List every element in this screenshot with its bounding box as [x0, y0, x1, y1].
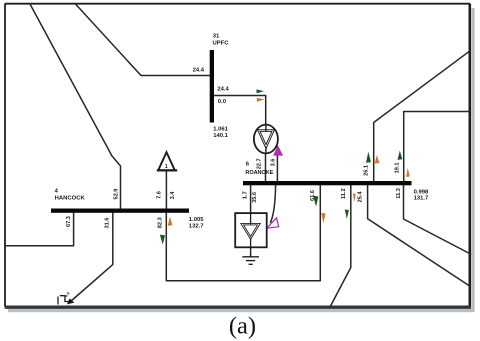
generator G1 [157, 152, 177, 170]
svg-text:24.4: 24.4 [193, 68, 205, 74]
svg-text:3.4: 3.4 [170, 191, 176, 200]
svg-text:0.0: 0.0 [218, 99, 227, 105]
svg-text:82.3: 82.3 [157, 217, 163, 228]
svg-text:1.7: 1.7 [243, 191, 249, 199]
wire line 19.1 from ROANOKE bus to right edge [404, 112, 470, 182]
wire line 67.3 from HANCOCK bus to left edge [5, 213, 74, 246]
orange flow arrow on line 82.3 [168, 217, 173, 226]
svg-text:3.6: 3.6 [271, 159, 277, 167]
svg-text:0.998: 0.998 [414, 189, 429, 195]
svg-text:11.3: 11.3 [396, 188, 402, 199]
orange flow arrow on UPFC-converter wire [257, 98, 265, 102]
svg-text:31.6: 31.6 [105, 218, 111, 229]
stub arrowhead [67, 298, 74, 304]
svg-text:1.005: 1.005 [189, 217, 204, 223]
bus 6 ROANOKE [243, 181, 412, 185]
svg-text:ROANOKE: ROANOKE [245, 170, 273, 176]
orange flow arrow on line 25.4 [353, 194, 356, 203]
wire series injection upper segment [276, 147, 278, 182]
ground [242, 247, 259, 264]
wire line 11.3 from ROANOKE bus to right edge [368, 185, 470, 286]
converter U1 UPFC shunt circle [254, 125, 278, 154]
svg-text:67.3: 67.3 [66, 216, 72, 227]
green flow arrow on line 11.2 [345, 210, 349, 219]
wire converter circle to ROANOKE bus [265, 154, 267, 182]
wire line 82.3/61.6 HANCOCK bus to ROANOKE bus [166, 185, 320, 281]
svg-text:52.9: 52.9 [113, 189, 119, 200]
svg-text:19.1: 19.1 [395, 163, 401, 174]
orange flow arrow on line 19.1 [406, 168, 410, 177]
svg-text:61.6: 61.6 [310, 190, 316, 201]
green flow arrow on UPFC-converter wire [256, 89, 264, 93]
wire line 26.1 from ROANOKE bus to right edge top [374, 51, 470, 181]
svg-text:7.6: 7.6 [157, 191, 163, 199]
svg-text:24.4: 24.4 [217, 86, 229, 92]
svg-text:UPFC: UPFC [213, 40, 230, 46]
green flow arrow on line 82.3 [160, 235, 165, 245]
svg-text:35.6: 35.6 [252, 192, 258, 203]
svg-text:HANCOCK: HANCOCK [55, 195, 86, 201]
wire line 31.6 from HANCOCK bus to bottom stub [71, 213, 113, 302]
svg-text:131.7: 131.7 [414, 195, 429, 201]
svg-text:1.061: 1.061 [213, 126, 228, 132]
svg-text:132.7: 132.7 [189, 223, 204, 229]
load L1 at ROANOKE [235, 213, 267, 247]
green flow arrow on line 61.6 [313, 196, 318, 207]
wire generator G1 to HANCOCK bus [165, 171, 167, 209]
magenta open arrow at load [267, 218, 279, 228]
wire line 24.4 from top edge to UPFC bus [76, 4, 210, 76]
svg-text:31: 31 [213, 34, 220, 40]
svg-text:(a): (a) [229, 313, 256, 340]
svg-text:22.7: 22.7 [257, 158, 263, 169]
green flow arrow on line 19.1 [398, 151, 403, 160]
svg-text:1: 1 [165, 164, 168, 170]
magenta arrow at converter [274, 146, 283, 155]
wire ROANOKE bus to load [250, 185, 252, 213]
svg-text:140.1: 140.1 [213, 133, 228, 139]
wire series injection lower segment [271, 185, 276, 222]
wire line 11.2/25.4 from ROANOKE bus to bottom edge [330, 185, 351, 307]
orange flow arrow on line 61.6 [321, 213, 325, 223]
orange flow arrow on line 26.1 [375, 155, 380, 164]
svg-text:11.2: 11.2 [341, 188, 347, 199]
bus 31 UPFC [210, 50, 214, 123]
svg-text:25.4: 25.4 [357, 191, 363, 203]
wire from ROANOKE bus to right edge lower [404, 185, 471, 254]
wire line 52.9 from top edge to HANCOCK bus [30, 4, 121, 209]
svg-text:26.1: 26.1 [364, 165, 370, 176]
stub symbol at bottom edge [58, 296, 71, 305]
wire UPFC bus to converter circle [214, 96, 266, 125]
bus 4 HANCOCK [51, 209, 189, 213]
green flow arrow on line 26.1 [366, 152, 371, 163]
